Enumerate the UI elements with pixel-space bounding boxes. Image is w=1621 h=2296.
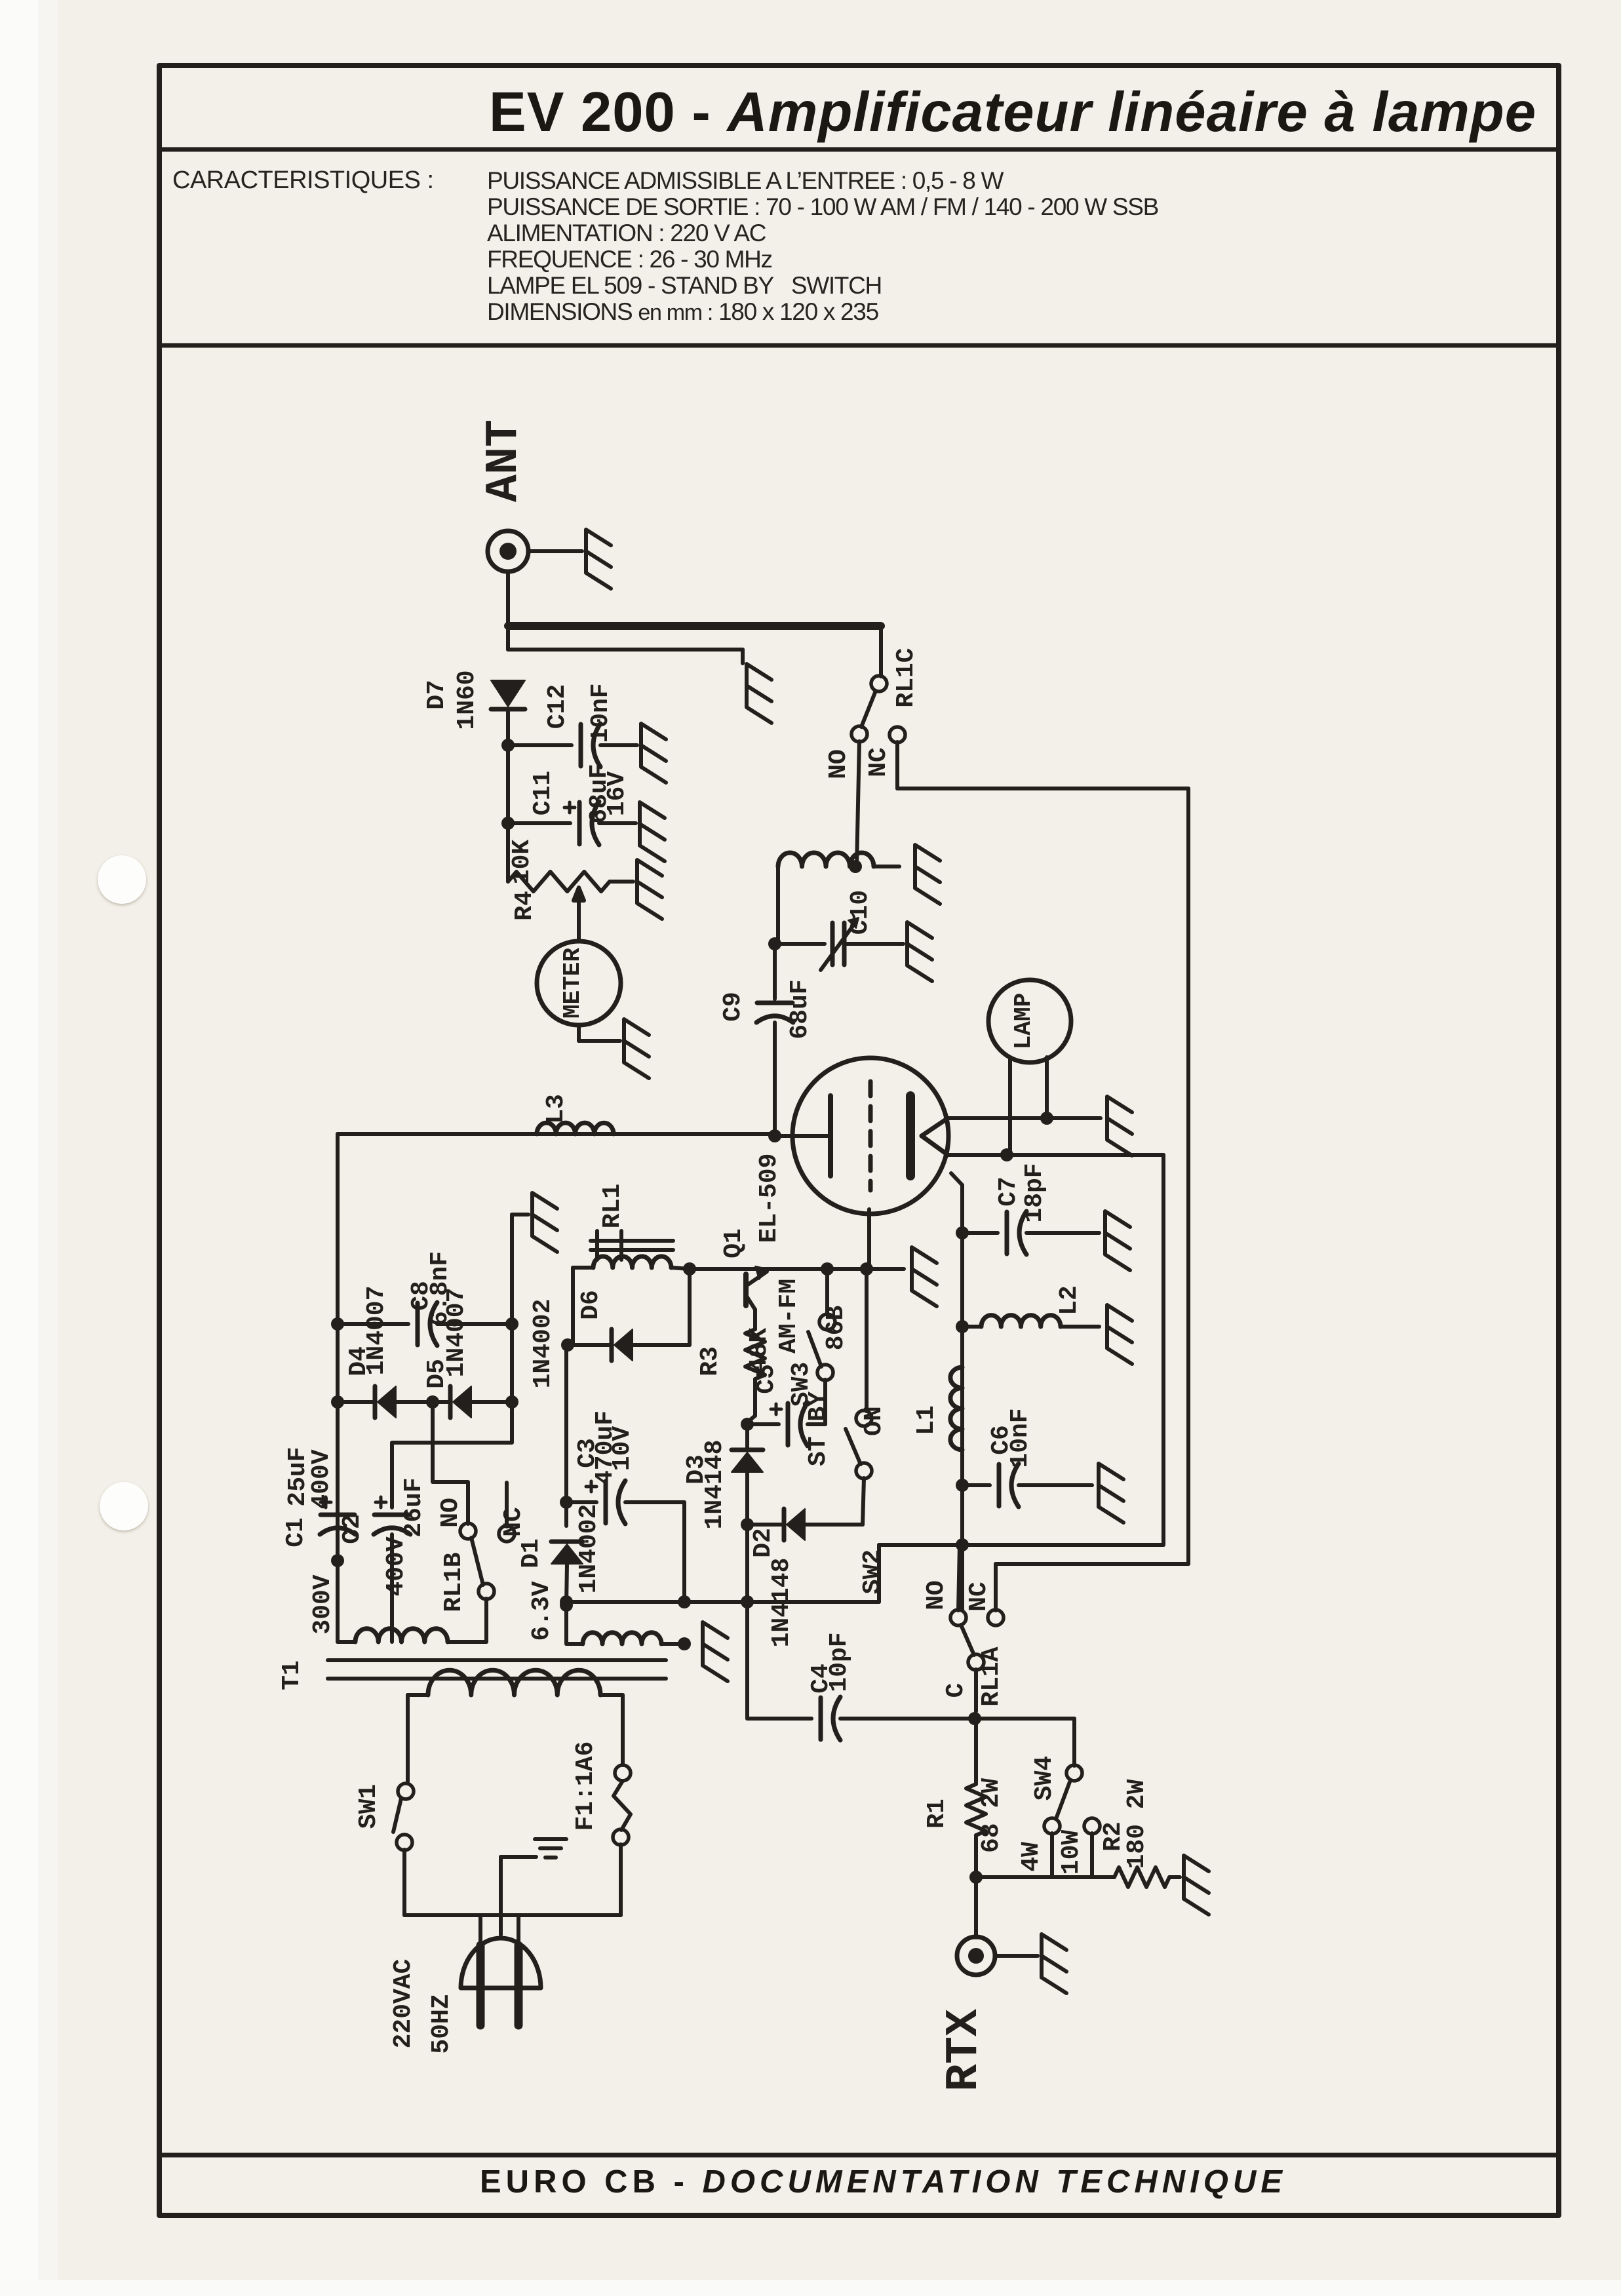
svg-text:NO: NO — [922, 1580, 950, 1610]
svg-text:C2: C2 — [338, 1514, 366, 1544]
svg-text:Q1: Q1 — [720, 1228, 748, 1258]
svg-text:RL1C: RL1C — [892, 648, 920, 707]
svg-text:10pF: 10pF — [825, 1632, 853, 1692]
svg-text:C10: C10 — [846, 890, 874, 935]
svg-text:400V: 400V — [382, 1536, 410, 1596]
svg-text:1N4148: 1N4148 — [768, 1558, 796, 1648]
svg-text:R1: R1 — [923, 1799, 951, 1829]
svg-text:NC: NC — [965, 1582, 993, 1612]
svg-text:R4: R4 — [511, 891, 539, 921]
svg-text:AM-FM: AM-FM — [775, 1279, 803, 1353]
svg-text:L3: L3 — [542, 1094, 570, 1124]
svg-text:6.3V: 6.3V — [528, 1581, 556, 1641]
svg-text:1N4148: 1N4148 — [701, 1440, 729, 1530]
svg-text:10nF: 10nF — [587, 683, 615, 743]
svg-text:4W: 4W — [1017, 1842, 1045, 1872]
svg-text:R3: R3 — [696, 1346, 724, 1376]
svg-text:ON: ON — [860, 1406, 888, 1436]
svg-text:NC: NC — [499, 1507, 528, 1537]
svg-text:D2: D2 — [749, 1528, 777, 1558]
svg-text:T1: T1 — [278, 1660, 306, 1690]
svg-text:1N4002: 1N4002 — [529, 1299, 557, 1389]
svg-text:10nF: 10nF — [1006, 1408, 1034, 1468]
svg-text:SW2: SW2 — [859, 1549, 887, 1594]
svg-text:DIMENSIONS en mm : 180 x 120 x: DIMENSIONS en mm : 180 x 120 x 235 — [487, 298, 879, 325]
svg-text:EL-509: EL-509 — [755, 1154, 783, 1243]
svg-text:1N4007: 1N4007 — [362, 1286, 391, 1376]
svg-text:L2: L2 — [1055, 1285, 1084, 1315]
svg-text:RTX: RTX — [939, 2009, 990, 2092]
svg-text:C9: C9 — [719, 992, 747, 1022]
svg-text:L1: L1 — [912, 1405, 941, 1435]
svg-text:F1:1A6: F1:1A6 — [572, 1741, 600, 1831]
svg-text:ST BY: ST BY — [804, 1391, 832, 1466]
svg-text:16V: 16V — [603, 771, 631, 817]
svg-text:SW4: SW4 — [1030, 1756, 1059, 1800]
svg-text:RL1: RL1 — [598, 1184, 627, 1228]
svg-text:D6: D6 — [577, 1290, 605, 1320]
svg-text:NO: NO — [825, 749, 853, 779]
svg-text:EURO CB - DOCUMENTATION TECHNI: EURO CB - DOCUMENTATION TECHNIQUE — [480, 2164, 1287, 2200]
svg-text:NO: NO — [437, 1498, 465, 1528]
svg-text:68uF: 68uF — [786, 979, 814, 1039]
svg-text:METER: METER — [559, 948, 586, 1019]
svg-text:C: C — [942, 1683, 970, 1698]
svg-text:50HZ: 50HZ — [427, 1994, 456, 2053]
svg-text:10V: 10V — [608, 1426, 636, 1471]
svg-text:NC: NC — [865, 747, 893, 777]
svg-text:68 2W: 68 2W — [977, 1778, 1006, 1853]
svg-text:26uF: 26uF — [400, 1477, 428, 1537]
svg-text:220VAC: 220VAC — [389, 1959, 418, 2049]
svg-text:C7: C7 — [994, 1177, 1023, 1207]
svg-text:SW1: SW1 — [355, 1784, 383, 1829]
svg-text:18pF: 18pF — [1021, 1163, 1049, 1222]
svg-text:ANT: ANT — [478, 419, 530, 502]
svg-text:400V: 400V — [307, 1449, 336, 1509]
svg-text:1N4002: 1N4002 — [575, 1504, 603, 1594]
svg-text:FREQUENCE : 26 - 30 MHz: FREQUENCE : 26 - 30 MHz — [487, 246, 772, 273]
svg-text:300V: 300V — [309, 1574, 337, 1634]
svg-text:PUISSANCE DE SORTIE : 70 - 100: PUISSANCE DE SORTIE : 70 - 100 W AM / FM… — [487, 193, 1158, 220]
svg-text:1N60: 1N60 — [453, 670, 481, 730]
svg-text:LAMPE EL 509 - STAND BY SWIT: LAMPE EL 509 - STAND BY SWITCH — [487, 272, 882, 299]
svg-text:86B: 86B — [822, 1306, 850, 1350]
svg-text:D1: D1 — [517, 1538, 545, 1568]
svg-text:ALIMENTATION : 220 V AC: ALIMENTATION : 220 V AC — [487, 220, 766, 246]
svg-text:RL1B: RL1B — [440, 1552, 468, 1612]
svg-text:C11: C11 — [529, 771, 557, 815]
svg-text:10K: 10K — [508, 840, 536, 885]
svg-text:PUISSANCE ADMISSIBLE A L’ENTRE: PUISSANCE ADMISSIBLE A L’ENTREE : 0,5 - … — [487, 167, 1004, 194]
svg-text:10W: 10W — [1057, 1830, 1085, 1875]
svg-text:C1: C1 — [282, 1517, 310, 1547]
svg-text:C12: C12 — [543, 684, 572, 729]
svg-text:CARACTERISTIQUES :: CARACTERISTIQUES : — [172, 166, 434, 194]
svg-text:C5: C5 — [752, 1364, 781, 1394]
svg-text:RL1A: RL1A — [977, 1646, 1006, 1706]
svg-text:D7: D7 — [423, 680, 451, 710]
svg-text:EV 200 - Amplificateur linéai: EV 200 - Amplificateur linéaire à lampe — [489, 81, 1536, 144]
svg-text:180 2W: 180 2W — [1123, 1779, 1151, 1869]
svg-text:1N4007: 1N4007 — [442, 1288, 471, 1378]
svg-text:LAMP: LAMP — [1010, 993, 1037, 1049]
